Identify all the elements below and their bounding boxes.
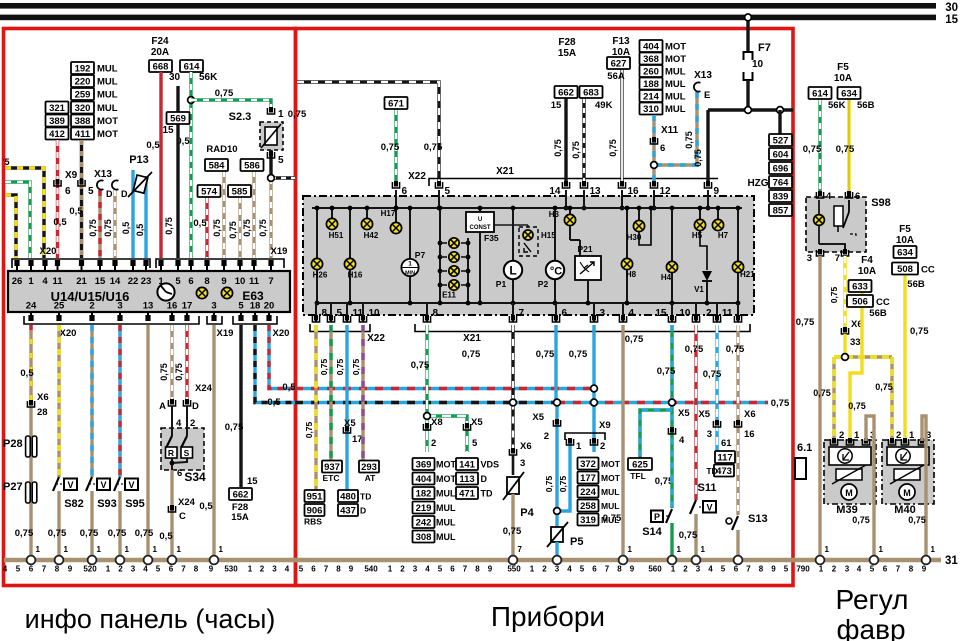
- svg-text:31: 31: [945, 555, 958, 567]
- svg-text:5: 5: [438, 565, 443, 574]
- svg-text:614: 614: [812, 89, 829, 100]
- svg-text:8: 8: [336, 565, 341, 574]
- green branch to X5 pin5 stack: [427, 416, 467, 452]
- wire pin15 green/blue to S14 chain: [670, 325, 673, 403]
- svg-text:0,75: 0,75: [88, 219, 98, 237]
- bus blue/black then blue/red y401: [295, 401, 557, 404]
- svg-text:471: 471: [459, 489, 476, 500]
- svg-text:527: 527: [773, 136, 789, 147]
- svg-text:X11: X11: [661, 125, 679, 136]
- svg-text:0,5: 0,5: [267, 397, 281, 408]
- connector pins below panel: [30, 312, 32, 317]
- svg-text:S82: S82: [64, 498, 84, 510]
- svg-text:'5: '5: [2, 157, 9, 167]
- svg-text:412: 412: [49, 129, 65, 140]
- svg-text:404: 404: [643, 42, 660, 53]
- svg-text:H42: H42: [364, 231, 379, 240]
- svg-text:S2.3: S2.3: [229, 111, 252, 123]
- svg-text:0,75: 0,75: [164, 217, 174, 235]
- svg-text:0,75: 0,75: [803, 144, 822, 155]
- cluster bottom pin stubs: [315, 303, 317, 322]
- wire X13-C to pin 14 (tan/white): [113, 190, 116, 258]
- wire pin 25 to terminal via S82 (yellow/tan): [57, 325, 60, 477]
- svg-text:9: 9: [630, 565, 635, 574]
- wire to HZG net boxes: [778, 110, 781, 134]
- svg-text:2: 2: [431, 438, 436, 449]
- wire pin11 tan/white to S13: [736, 325, 739, 515]
- svg-text:662: 662: [558, 88, 574, 99]
- svg-text:0,75: 0,75: [771, 398, 790, 409]
- svg-text:6: 6: [29, 565, 34, 574]
- svg-text:VDS: VDS: [481, 460, 500, 470]
- svg-text:0,75: 0,75: [829, 286, 839, 303]
- svg-text:26: 26: [12, 276, 23, 287]
- svg-text:1: 1: [408, 261, 412, 268]
- svg-text:3: 3: [707, 429, 712, 440]
- cluster lamp H15 dashed box: [494, 224, 528, 226]
- svg-text:33: 33: [850, 337, 861, 348]
- connector strip X20 right below panel: [233, 316, 277, 324]
- svg-text:3: 3: [845, 565, 850, 574]
- net box 585 wire to pin 10 (tan/white): [238, 197, 241, 258]
- svg-text:E: E: [704, 90, 710, 101]
- svg-text:S14: S14: [642, 526, 662, 538]
- svg-text:CC: CC: [921, 265, 935, 276]
- svg-text:437: 437: [340, 506, 356, 517]
- cluster bottom X22 bracket: [310, 324, 370, 332]
- svg-text:MUL: MUL: [436, 518, 456, 528]
- wire pin8 green to X8/X5 boxes: [425, 325, 428, 416]
- S98 internal relay: [819, 200, 856, 252]
- cluster lamp H7: [717, 208, 719, 219]
- svg-text:S34: S34: [184, 470, 206, 484]
- svg-text:1: 1: [28, 276, 34, 287]
- net boxes 321/320 389/388 412/411 rows: [46, 102, 69, 115]
- svg-text:CC: CC: [876, 297, 890, 308]
- bus blue/red y388: [295, 387, 594, 390]
- svg-text:857: 857: [773, 206, 789, 217]
- svg-text:614: 614: [184, 62, 201, 73]
- connector X24 pin A: [168, 399, 175, 406]
- svg-text:P27: P27: [3, 481, 23, 493]
- svg-text:3: 3: [600, 308, 606, 319]
- svg-text:H16: H16: [348, 271, 363, 280]
- headlamp motor M40 box: [882, 440, 934, 504]
- wire S34 to terminal via X24-C: [170, 470, 173, 558]
- svg-text:0,75: 0,75: [875, 382, 893, 392]
- svg-text:2: 2: [89, 301, 94, 312]
- svg-text:5: 5: [472, 438, 478, 449]
- svg-text:1: 1: [854, 430, 860, 441]
- svg-text:5: 5: [238, 301, 244, 312]
- svg-text:X22: X22: [367, 333, 385, 344]
- net box 574 wire to pin 8 (red/white): [205, 197, 208, 258]
- svg-text:560: 560: [648, 565, 662, 574]
- svg-text:15: 15: [655, 308, 667, 319]
- cluster lamp H30: [638, 208, 640, 220]
- svg-text:V: V: [100, 480, 106, 490]
- svg-text:6: 6: [402, 186, 408, 197]
- svg-text:MUL: MUL: [97, 77, 118, 88]
- svg-text:6: 6: [188, 276, 193, 287]
- svg-text:56B: 56B: [857, 100, 875, 111]
- tan/white wire junction to pin 7: [269, 178, 272, 258]
- svg-text:ETC: ETC: [323, 473, 340, 483]
- svg-text:2: 2: [600, 441, 605, 452]
- svg-text:MUL: MUL: [601, 501, 619, 511]
- svg-text:6: 6: [855, 191, 860, 202]
- svg-text:F28: F28: [558, 37, 576, 48]
- svg-text:15: 15: [945, 14, 958, 26]
- svg-text:23: 23: [141, 276, 152, 287]
- svg-text:0,75: 0,75: [703, 369, 722, 380]
- svg-text:117: 117: [717, 453, 732, 464]
- svg-text:2: 2: [544, 431, 549, 442]
- svg-text:H26: H26: [313, 271, 328, 280]
- svg-text:61: 61: [721, 438, 732, 449]
- svg-text:1: 1: [530, 565, 535, 574]
- svg-text:MUL: MUL: [97, 103, 118, 114]
- svg-text:1: 1: [36, 545, 41, 554]
- wire pin 2 to terminal via S93 (tan/blue): [90, 325, 93, 477]
- svg-text:520: 520: [83, 565, 97, 574]
- svg-text:X6: X6: [520, 441, 532, 452]
- svg-text:0,5: 0,5: [135, 224, 145, 237]
- svg-text:4: 4: [567, 565, 572, 574]
- cluster lamp block E11: [439, 208, 441, 238]
- svg-text:P7: P7: [415, 250, 426, 260]
- svg-text:627: 627: [611, 59, 627, 70]
- svg-text:7: 7: [268, 276, 273, 287]
- svg-text:5: 5: [278, 155, 284, 166]
- tan/yellow header wire: [834, 355, 892, 358]
- rheostat P5: [547, 522, 568, 547]
- svg-text:X9: X9: [65, 170, 78, 181]
- net box 293 AT: [359, 461, 379, 474]
- svg-text:P2: P2: [538, 279, 549, 289]
- net boxes 527-857 HZG stack: [769, 134, 792, 147]
- svg-text:24: 24: [26, 301, 37, 312]
- svg-text:14: 14: [110, 276, 121, 287]
- svg-text:16: 16: [167, 301, 178, 312]
- wire S2.3 to junction: [269, 150, 272, 178]
- svg-text:MUL: MUL: [601, 487, 619, 497]
- svg-text:25: 25: [54, 301, 65, 312]
- net box 625 TFL: [628, 458, 652, 471]
- svg-text:8: 8: [475, 565, 480, 574]
- svg-text:7: 7: [181, 565, 186, 574]
- svg-text:X21: X21: [463, 333, 481, 344]
- svg-text:15: 15: [95, 276, 106, 287]
- svg-text:X8: X8: [431, 417, 443, 428]
- svg-text:10A: 10A: [858, 266, 876, 277]
- svg-text:4: 4: [285, 565, 290, 574]
- svg-text:951: 951: [307, 492, 324, 503]
- svg-text:0,75: 0,75: [679, 530, 698, 541]
- svg-text:MUL: MUL: [665, 79, 686, 90]
- svg-text:790: 790: [796, 565, 810, 574]
- svg-text:15A: 15A: [231, 512, 249, 523]
- svg-text:411: 411: [75, 129, 91, 140]
- svg-text:F5: F5: [837, 62, 849, 73]
- connector strip X19 below panel: [207, 316, 222, 324]
- cluster lamp H16: [349, 208, 351, 303]
- svg-text:0,75: 0,75: [288, 109, 307, 120]
- svg-text:10A: 10A: [896, 235, 914, 246]
- svg-text:7: 7: [463, 565, 468, 574]
- svg-text:0,75: 0,75: [159, 363, 169, 381]
- svg-text:5: 5: [870, 565, 875, 574]
- svg-text:6: 6: [592, 565, 597, 574]
- svg-text:0,75: 0,75: [608, 139, 618, 157]
- svg-text:319: 319: [580, 515, 596, 526]
- svg-text:0,75: 0,75: [553, 139, 563, 157]
- svg-text:242: 242: [416, 518, 432, 529]
- svg-text:2: 2: [683, 565, 688, 574]
- svg-text:L: L: [509, 264, 516, 278]
- svg-text:1: 1: [177, 545, 182, 554]
- svg-text:X13: X13: [94, 169, 112, 180]
- branch to X9 pin1: [557, 440, 570, 511]
- svg-text:Прибори: Прибори: [491, 601, 605, 632]
- svg-text:7: 7: [324, 565, 329, 574]
- svg-text:0,75: 0,75: [684, 131, 694, 149]
- svg-text:260: 260: [643, 67, 659, 78]
- net boxes 633 506 CC: [850, 280, 862, 441]
- svg-text:5: 5: [721, 565, 726, 574]
- net box 634 yellow wire to S98 pin 6: [847, 99, 850, 194]
- svg-text:219: 219: [416, 503, 432, 514]
- switch S13: [726, 518, 732, 524]
- svg-text:182: 182: [416, 489, 432, 500]
- svg-text:1: 1: [278, 109, 284, 120]
- svg-text:506: 506: [852, 297, 868, 308]
- cluster lamp H8: [626, 208, 628, 303]
- svg-text:141: 141: [459, 460, 476, 471]
- svg-text:4: 4: [629, 308, 635, 319]
- brown hook M40 pin3 to terminal: [922, 416, 926, 558]
- svg-text:Регул: Регул: [836, 584, 909, 615]
- cluster top pins: [392, 181, 399, 188]
- wire from left edge to pin 26 (yellow/black): [5, 195, 16, 258]
- svg-text:56B: 56B: [869, 308, 887, 319]
- svg-text:508: 508: [897, 264, 913, 275]
- svg-text:28: 28: [37, 407, 48, 418]
- connector X13 pin 5: [78, 179, 85, 186]
- svg-text:HZG: HZG: [747, 178, 768, 189]
- svg-text:MIN: MIN: [405, 271, 415, 277]
- svg-text:6.1: 6.1: [797, 442, 812, 454]
- svg-text:30: 30: [945, 2, 958, 14]
- svg-text:MOT: MOT: [601, 473, 621, 483]
- relay S98 box: [806, 197, 866, 252]
- svg-text:2: 2: [118, 565, 123, 574]
- svg-text:530: 530: [224, 565, 238, 574]
- wire pin10 red/white to S11 chain: [694, 325, 697, 500]
- svg-text:56K: 56K: [199, 72, 218, 83]
- svg-text:9: 9: [221, 276, 226, 287]
- svg-text:1: 1: [576, 441, 582, 452]
- svg-text:308: 308: [416, 532, 432, 543]
- net boxes 404-310 MOT/MUL stack: [640, 40, 663, 53]
- svg-text:MUL: MUL: [97, 64, 118, 75]
- svg-text:3: 3: [131, 565, 136, 574]
- svg-text:9: 9: [209, 565, 214, 574]
- svg-text:56K: 56K: [828, 100, 846, 111]
- svg-text:320: 320: [75, 103, 91, 114]
- svg-text:220: 220: [75, 77, 91, 88]
- wire pin11 blue to 480/437 via X5-17: [345, 325, 348, 490]
- svg-text:0,5: 0,5: [146, 140, 160, 151]
- svg-text:0,75: 0,75: [462, 349, 481, 360]
- svg-text:3: 3: [555, 565, 560, 574]
- svg-text:259: 259: [75, 90, 91, 101]
- svg-text:10A: 10A: [834, 73, 852, 84]
- net boxes 117 473 TD: [715, 451, 735, 464]
- svg-text:224: 224: [580, 487, 597, 498]
- svg-text:30: 30: [169, 72, 181, 83]
- svg-text:MUL: MUL: [436, 532, 456, 542]
- svg-text:X6: X6: [37, 392, 49, 403]
- svg-text:5: 5: [784, 565, 789, 574]
- svg-text:0,75: 0,75: [424, 142, 443, 153]
- cluster lamp H4: [671, 208, 673, 303]
- svg-text:MUL: MUL: [436, 503, 456, 513]
- net box 668 and red wire to pin 1: [149, 60, 172, 73]
- panel lamp 2: [221, 287, 232, 298]
- svg-text:11: 11: [249, 276, 260, 287]
- wire pin3 blue to X9 pin2 and 372 stack: [592, 325, 595, 389]
- svg-text:9: 9: [488, 565, 493, 574]
- svg-text:18: 18: [250, 301, 261, 312]
- svg-text:инфо панель (часы): инфо панель (часы): [25, 604, 276, 634]
- connector X13-E wire (tan/blue): [654, 92, 697, 165]
- svg-text:D: D: [121, 189, 128, 199]
- red frame middle section: [296, 29, 794, 586]
- svg-text:A: A: [159, 401, 166, 412]
- cluster internal bottom bus: [318, 302, 738, 304]
- svg-text:1: 1: [388, 565, 393, 574]
- wire pin 13 to terminal (tan): [146, 325, 149, 558]
- net box 627 white wire to pin 16: [620, 69, 623, 186]
- switch S14 with P box: [670, 477, 673, 508]
- svg-text:X13: X13: [694, 70, 712, 81]
- svg-text:5: 5: [445, 186, 451, 197]
- svg-text:0,75: 0,75: [212, 219, 222, 237]
- svg-text:6: 6: [450, 565, 455, 574]
- svg-text:D: D: [106, 189, 113, 199]
- supply rail 30: [0, 2, 958, 14]
- svg-text:0,75: 0,75: [625, 334, 644, 345]
- svg-text:S93: S93: [97, 498, 117, 510]
- wire pin 16 to S34 via X24-A (tan/white): [170, 325, 173, 402]
- svg-text:1: 1: [97, 545, 102, 554]
- svg-text:5: 5: [175, 276, 181, 287]
- svg-text:1: 1: [931, 545, 936, 554]
- svg-text:2: 2: [542, 565, 547, 574]
- svg-text:214: 214: [643, 92, 660, 103]
- cluster gauge P1 fuel: [512, 208, 514, 261]
- svg-text:X5: X5: [698, 409, 710, 420]
- net box 586 wire to pin 11 (tan/white): [252, 171, 255, 258]
- wire X13-C to pin 15 (red/tan): [98, 190, 101, 258]
- svg-text:2: 2: [400, 565, 405, 574]
- svg-text:6: 6: [660, 143, 665, 154]
- svg-text:S11: S11: [698, 482, 717, 494]
- cluster gauge P2 temperature: [554, 208, 556, 261]
- svg-text:8: 8: [204, 276, 209, 287]
- svg-text:0,75: 0,75: [910, 326, 929, 337]
- svg-text:P21: P21: [577, 244, 592, 254]
- svg-text:MUL: MUL: [665, 67, 686, 78]
- svg-text:0,75: 0,75: [558, 475, 568, 492]
- svg-text:473: 473: [716, 466, 732, 477]
- svg-text:3: 3: [696, 565, 701, 574]
- svg-text:H17: H17: [381, 209, 396, 218]
- junction on 614 wire: [188, 97, 195, 104]
- cluster lamp H17: [395, 208, 397, 228]
- svg-text:F4: F4: [861, 255, 873, 266]
- svg-text:4: 4: [857, 565, 862, 574]
- svg-text:0,75: 0,75: [813, 388, 831, 398]
- wire pin 18 bend to bus (blue/black): [255, 325, 295, 403]
- svg-text:0,75: 0,75: [852, 515, 870, 525]
- svg-text:1: 1: [125, 545, 130, 554]
- svg-text:RBS: RBS: [304, 517, 322, 527]
- svg-text:586: 586: [244, 161, 260, 172]
- svg-text:1: 1: [64, 545, 69, 554]
- wire from left edge to pin 4 (yellow/black): [5, 168, 44, 258]
- svg-text:389: 389: [49, 116, 65, 127]
- svg-text:6: 6: [311, 565, 316, 574]
- svg-text:15: 15: [162, 125, 174, 136]
- svg-text:11: 11: [722, 308, 733, 319]
- wire pin 3 right to terminal (tan): [212, 325, 215, 558]
- svg-text:0,75: 0,75: [571, 141, 581, 159]
- cluster lamp H3: [569, 208, 571, 214]
- svg-text:0,5: 0,5: [69, 206, 83, 217]
- svg-text:5: 5: [580, 565, 585, 574]
- svg-text:X20: X20: [60, 328, 77, 339]
- wire pin 5 to net box 662 (black): [239, 325, 242, 487]
- black wire F7 to distribution: [746, 80, 749, 110]
- svg-text:H21: H21: [740, 270, 755, 279]
- svg-text:388: 388: [75, 116, 91, 127]
- svg-text:15A: 15A: [558, 48, 576, 59]
- fuse F7 from rail 15: [746, 20, 749, 52]
- svg-text:0,75: 0,75: [215, 88, 234, 99]
- svg-text:X22: X22: [408, 171, 426, 182]
- svg-text:4: 4: [3, 565, 8, 574]
- svg-text:372: 372: [580, 459, 596, 470]
- svg-text:V1: V1: [694, 285, 704, 294]
- svg-text:MOT: MOT: [436, 474, 456, 484]
- net boxes 369-308 stack: [413, 458, 435, 471]
- svg-text:F7: F7: [758, 42, 771, 54]
- svg-text:0,5: 0,5: [282, 382, 296, 393]
- svg-text:X19: X19: [271, 246, 288, 257]
- svg-text:7: 7: [896, 565, 901, 574]
- svg-text:0,5: 0,5: [121, 222, 131, 235]
- svg-text:1: 1: [671, 565, 676, 574]
- svg-text:906: 906: [307, 506, 323, 517]
- svg-text:177: 177: [580, 473, 596, 484]
- svg-text:0,75: 0,75: [536, 349, 555, 360]
- connector X9 bracket: [565, 433, 605, 440]
- svg-text:X19: X19: [217, 328, 234, 339]
- svg-text:49K: 49K: [595, 100, 613, 111]
- svg-text:404: 404: [416, 474, 433, 485]
